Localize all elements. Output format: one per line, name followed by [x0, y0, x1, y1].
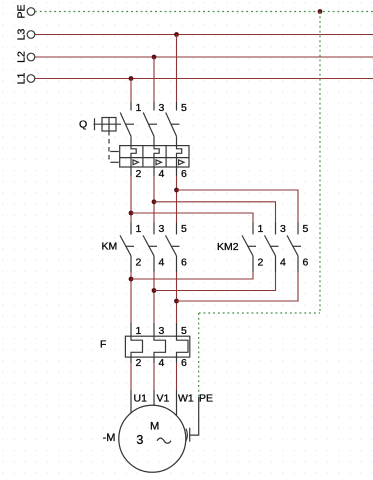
junction dot L2 / pole 3: [152, 55, 157, 60]
junction dot L1 / pole 1: [129, 76, 134, 81]
wire Q pin6 down to KM pin5: [176, 176, 178, 223]
motor AC tilde symbol: [157, 438, 171, 443]
svg-text:3: 3: [280, 223, 286, 235]
PE conductor: drop to motor: [198, 313, 200, 398]
overload F thermal element pole 3: [154, 336, 166, 357]
svg-text:6: 6: [181, 168, 187, 180]
wire Q pin4 down to KM pin3: [153, 176, 155, 223]
overload F pin labels 1 3 5: [136, 325, 188, 337]
breaker Q bottom pins: [131, 167, 177, 176]
overload F top pins: [131, 323, 177, 336]
svg-text:6: 6: [303, 257, 309, 269]
svg-text:6: 6: [181, 357, 187, 369]
breaker Q thermal release pole 1: [131, 146, 136, 158]
node L3 : terminal circle: [27, 31, 35, 39]
svg-text:1: 1: [136, 102, 142, 114]
svg-text:3: 3: [159, 325, 165, 337]
node L3 : bus line: [35, 34, 373, 36]
svg-text:3: 3: [159, 223, 165, 235]
breaker Q trip unit box: [120, 146, 189, 167]
svg-text:5: 5: [181, 223, 187, 235]
node L1 : terminal circle: [27, 75, 35, 83]
breaker Q contact pole 3: [143, 102, 154, 146]
svg-text:2: 2: [258, 257, 264, 269]
overload F pin labels 2 4 6: [136, 357, 188, 369]
svg-text:L1: L1: [16, 73, 28, 85]
wire F pin4 down to motor V1: [153, 363, 155, 390]
breaker Q handle box: [94, 118, 122, 132]
junction dot branch pole1: [129, 211, 134, 216]
svg-text:PE: PE: [199, 393, 213, 405]
breaker Q contact pole 5: [166, 102, 177, 146]
overload F thermal element pole 1: [131, 336, 143, 357]
svg-text:4: 4: [280, 257, 286, 269]
junction dot merge pole5: [174, 299, 179, 304]
svg-text:Q: Q: [79, 119, 87, 131]
svg-text:-M: -M: [103, 432, 116, 444]
node L2 : bus line: [35, 56, 373, 58]
svg-text:6: 6: [181, 257, 187, 269]
breaker Q magnetic release pole 3: [154, 158, 162, 167]
svg-text:1: 1: [258, 223, 264, 235]
svg-text:4: 4: [159, 257, 165, 269]
svg-text:3: 3: [136, 433, 143, 447]
svg-text:KM: KM: [102, 241, 118, 253]
motor PE pin and frame connection: [186, 397, 199, 442]
wire branch to KM2 pin 1: [131, 213, 253, 223]
wire F pin2 down to motor U1: [130, 363, 132, 390]
PE conductor: horizontal run: [199, 312, 320, 314]
svg-text:PE: PE: [16, 4, 28, 18]
breaker Q linkage dashes: [109, 124, 180, 162]
node PE : terminal circle: [27, 8, 35, 16]
wire L3 down to Q pin 5: [176, 35, 178, 103]
contactor KM pole 3 contact: [143, 223, 154, 273]
wire L2 down to Q pin 3: [153, 57, 155, 102]
motor M terminal pins: [131, 390, 177, 416]
wire KM pole1 down to F pin1: [130, 272, 132, 323]
contactor KM pin labels 1 3 5: [136, 223, 188, 235]
svg-text:3: 3: [159, 102, 165, 114]
breaker Q magnetic release pole 5: [177, 158, 185, 167]
junction dot L3 / pole 5: [174, 32, 179, 37]
svg-text:5: 5: [303, 223, 309, 235]
motor M body circle: [119, 405, 186, 472]
contactor KM2 pole 5 contact: [287, 223, 298, 273]
wire F pin6 down to motor W1: [176, 363, 178, 390]
svg-text:4: 4: [159, 168, 165, 180]
breaker Q thermal release pole 3: [154, 146, 159, 158]
svg-text:2: 2: [136, 168, 142, 180]
overload F bottom pins: [131, 357, 177, 363]
wire KM pole5 down to F pin5: [176, 272, 178, 323]
wire KM pole3 down to F pin3: [153, 272, 155, 323]
svg-text:U1: U1: [134, 393, 148, 405]
svg-text:KM2: KM2: [217, 241, 239, 253]
node L2 : terminal circle: [27, 53, 35, 61]
overload F thermal element pole 5: [177, 336, 189, 357]
contactor KM linkage ticks: [125, 245, 179, 247]
breaker Q thermal release pole 5: [177, 146, 182, 158]
contactor KM2 pole 1 contact: [242, 223, 253, 273]
junction dot merge pole1: [129, 277, 134, 282]
contactor KM2 linkage ticks: [247, 245, 301, 247]
svg-text:F: F: [100, 339, 106, 351]
contactor KM2 pin labels 2 4 6: [258, 257, 309, 269]
contactor KM pole 1 contact: [120, 223, 131, 273]
contactor KM pin labels 2 4 6: [136, 257, 188, 269]
wire branch to KM2 pin 5: [177, 190, 299, 223]
svg-text:M: M: [150, 420, 159, 432]
wire L1 down to Q pin 1: [130, 79, 132, 103]
contactor KM2 pole 3 contact: [265, 223, 276, 273]
svg-text:5: 5: [181, 325, 187, 337]
wire Q pin2 down to KM pin1: [130, 176, 132, 223]
svg-text:V1: V1: [157, 393, 170, 405]
svg-text:5: 5: [181, 102, 187, 114]
wire branch to KM2 pin 3: [154, 202, 276, 223]
svg-text:2: 2: [136, 357, 142, 369]
junction dot merge pole3: [152, 288, 157, 293]
svg-text:L2: L2: [16, 51, 28, 63]
junction dot PE bus: [318, 9, 323, 14]
PE conductor: vertical drop at right: [319, 12, 321, 314]
junction dot branch pole5: [174, 188, 179, 193]
contactor KM2 pin labels 1 3 5: [258, 223, 309, 235]
breaker Q contact pole 1: [120, 102, 131, 146]
svg-text:1: 1: [136, 325, 142, 337]
overload F box: [125, 336, 189, 357]
wire KM2 pole6 back to pole5 column: [177, 272, 299, 301]
svg-text:L3: L3: [16, 29, 28, 41]
wire KM2 pole2 back to pole1 column: [131, 272, 253, 279]
svg-text:W1: W1: [178, 393, 194, 405]
wire KM2 pole4 back to pole3 column: [154, 272, 276, 291]
node L1 : bus line: [35, 78, 373, 80]
contactor KM pole 5 contact: [166, 223, 177, 273]
node PE : bus line (green dotted): [35, 11, 373, 13]
svg-text:1: 1: [136, 223, 142, 235]
junction dot branch pole3: [152, 199, 157, 204]
breaker Q magnetic release pole 1: [131, 158, 139, 167]
svg-text:2: 2: [136, 257, 142, 269]
svg-text:4: 4: [159, 357, 165, 369]
